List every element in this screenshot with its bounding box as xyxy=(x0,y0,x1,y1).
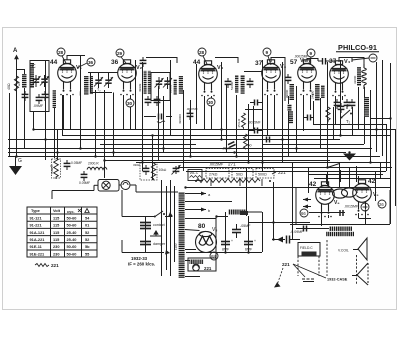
trimmer C3a xyxy=(155,77,164,89)
wire x62 xyxy=(62,95,64,135)
cathode bias resistor xyxy=(133,163,167,181)
tube V3 (44) xyxy=(199,61,218,97)
wire antenna drop xyxy=(16,59,18,156)
caps near V3 right xyxy=(225,78,232,88)
wire x135 xyxy=(135,60,137,129)
svg-text:G: G xyxy=(18,158,22,164)
wire x282 xyxy=(282,62,284,162)
cap on speaker line xyxy=(304,226,307,232)
svg-text:221: 221 xyxy=(51,263,59,268)
note 221 under table xyxy=(35,263,59,268)
wire x33 xyxy=(33,112,35,129)
wire x248 xyxy=(248,104,250,162)
svg-text:-05MF: -05MF xyxy=(240,224,251,228)
svg-text:115: 115 xyxy=(53,230,60,235)
svg-text:6MF: 6MF xyxy=(245,248,253,252)
IF2 coil bar a xyxy=(235,75,238,93)
svg-text:91-121: 91-121 xyxy=(30,215,43,220)
svg-text:80: 80 xyxy=(198,223,206,230)
wire 42a legs down xyxy=(322,215,329,226)
svg-text:271: 271 xyxy=(228,162,236,167)
trimmer C3b xyxy=(163,77,172,89)
wire x313 xyxy=(313,101,315,125)
wire x358 xyxy=(358,87,360,129)
speaker field coil box xyxy=(298,243,320,257)
svg-text:V₈: V₈ xyxy=(212,227,217,233)
svg-text:42: 42 xyxy=(368,178,376,185)
voltage divider resistor zigzag xyxy=(195,179,271,187)
wire bus y135 xyxy=(62,135,390,137)
svg-text:V₄: V₄ xyxy=(344,59,351,65)
trimmer C1a xyxy=(32,75,41,87)
plate top wires xyxy=(67,56,364,102)
resistor vertical mid-left xyxy=(50,158,61,179)
coil loops of output IF transformer xyxy=(362,64,367,89)
antenna coil L3 xyxy=(30,63,35,88)
circled 28 above V1 xyxy=(57,48,65,56)
speaker plug arrow 221 xyxy=(274,262,326,288)
coupling cap 161,116 xyxy=(157,114,165,123)
wire x376 xyxy=(376,62,378,152)
wire V3 legs down xyxy=(205,96,212,129)
svg-text:44: 44 xyxy=(193,59,201,66)
cap at 190,115 xyxy=(187,110,194,120)
svg-text:25-40: 25-40 xyxy=(67,237,77,242)
svg-text:25m.R: 25m.R xyxy=(237,118,241,128)
svg-text:FIELD.C: FIELD.C xyxy=(300,246,313,250)
wire bus y152 xyxy=(8,152,346,154)
output tube 42 a xyxy=(316,182,335,218)
wire x163 xyxy=(163,96,165,152)
wire x320 xyxy=(320,98,322,148)
caps bottom right quadrant xyxy=(334,99,341,109)
svg-text:V₆: V₆ xyxy=(334,200,340,206)
output transformer secondary bar xyxy=(326,232,354,236)
wire x226 xyxy=(226,84,228,152)
svg-text:T₂: T₂ xyxy=(346,119,351,124)
capacitor .09MF below C1 xyxy=(36,94,43,104)
wire x158 xyxy=(158,86,160,160)
svg-text:.0015MF: .0015MF xyxy=(209,163,224,167)
svg-text:max.R: max.R xyxy=(50,164,54,174)
svg-text:0.05MF: 0.05MF xyxy=(71,161,82,165)
trimmer C2b xyxy=(104,76,113,88)
wire x352 xyxy=(352,107,354,136)
wire left riser x9 xyxy=(9,93,11,156)
tone cap with arrow xyxy=(172,165,181,175)
cap detector a xyxy=(248,119,263,134)
wire V4 legs down xyxy=(268,95,275,135)
svg-text:26: 26 xyxy=(379,202,384,207)
svg-text:115: 115 xyxy=(53,223,60,228)
wire x288 xyxy=(288,96,290,156)
wire x183 xyxy=(183,90,185,171)
detector RC cluster xyxy=(237,113,248,149)
IF1 coil bar a xyxy=(144,71,147,95)
wire x45 xyxy=(45,60,47,160)
svg-text:-0.09MF: -0.09MF xyxy=(290,230,304,234)
AC input section wires xyxy=(122,190,173,255)
IF1 coil bar d xyxy=(179,76,183,94)
resistor bar below V4b b xyxy=(321,85,325,98)
resistor top right xyxy=(326,107,330,122)
cap near V4 right xyxy=(285,74,292,84)
resistor bar near V4a right2 xyxy=(288,104,292,111)
trimmer C1b xyxy=(40,75,49,87)
svg-text:V₄: V₄ xyxy=(300,58,307,64)
svg-text:91-221: 91-221 xyxy=(30,223,43,228)
resistor bar near V4a right xyxy=(290,84,295,100)
speaker input cap xyxy=(272,230,304,244)
antenna coil L2 xyxy=(22,74,27,88)
svg-text:cyc.: cyc. xyxy=(67,209,75,214)
circled 30 below 42a xyxy=(300,209,308,217)
svg-text:36: 36 xyxy=(111,59,119,66)
gang capacitor section C2 xyxy=(88,72,118,93)
svg-text:V₃: V₃ xyxy=(217,65,224,71)
svg-text:V₄: V₄ xyxy=(280,64,287,70)
svg-text:C: C xyxy=(32,64,36,70)
IF2 coil bar b xyxy=(241,75,245,94)
wire left riser x24 xyxy=(24,69,26,74)
wire x333 xyxy=(333,107,335,139)
svg-text:36: 36 xyxy=(88,60,94,65)
osc coil bar b xyxy=(90,76,93,95)
svg-text:Volt: Volt xyxy=(53,208,61,213)
svg-text:IF = 260 k/cs.: IF = 260 k/cs. xyxy=(128,262,155,267)
fuse box under rectifier xyxy=(188,258,216,271)
small ground right xyxy=(343,152,356,161)
capacitor .09MF mid xyxy=(81,171,88,181)
wire right edge x390 xyxy=(390,63,392,224)
svg-text:.09MF: .09MF xyxy=(33,104,44,108)
cap top right a xyxy=(304,115,314,121)
antenna A xyxy=(13,48,19,59)
circled 30 below V3 xyxy=(207,98,215,106)
svg-text:28: 28 xyxy=(58,50,64,55)
wire x327 xyxy=(327,62,329,167)
svg-text:42: 42 xyxy=(309,181,317,188)
wire bus y129 xyxy=(33,129,395,131)
svg-text:1932-33: 1932-33 xyxy=(131,256,148,261)
svg-text:.0015MF: .0015MF xyxy=(248,121,261,125)
svg-text:.09MF: .09MF xyxy=(222,147,231,151)
tiny vertical labels xyxy=(17,75,357,250)
svg-text:32000: 32000 xyxy=(353,75,357,84)
wire x386 xyxy=(386,124,388,171)
gang capacitor box C3 xyxy=(151,73,170,101)
push-pull coupling loops xyxy=(333,188,357,198)
svg-text:.00025MF: .00025MF xyxy=(294,55,308,59)
svg-text:10kΩ: 10kΩ xyxy=(159,168,167,172)
svg-text:91E-221: 91E-221 xyxy=(30,251,46,256)
svg-text:A: A xyxy=(13,48,18,54)
svg-text:PHILCO-91: PHILCO-91 xyxy=(338,43,377,52)
wire x113 xyxy=(113,93,115,157)
IF1 coil bar b xyxy=(148,71,151,95)
cap detector b xyxy=(248,137,270,148)
line filter arrow xyxy=(150,230,162,236)
wire bus y167 xyxy=(178,167,392,169)
wire x340 xyxy=(340,60,342,135)
text 1932-33 note xyxy=(128,256,155,267)
svg-text:V.COIL: V.COIL xyxy=(338,249,349,253)
wire x104 xyxy=(104,90,106,178)
wire bus y162 xyxy=(136,162,390,164)
wire right edge x395 xyxy=(395,129,397,206)
wire x382 xyxy=(382,60,384,156)
IF1 coil bar c xyxy=(174,79,177,95)
svg-text:29: 29 xyxy=(117,51,123,56)
wire x152 xyxy=(152,135,154,180)
circled minus right of 42b xyxy=(361,203,369,211)
speaker cone upper xyxy=(338,238,367,260)
resistor bar below V4b a xyxy=(315,84,320,101)
cap top right of V4b xyxy=(318,58,330,65)
wire x196 xyxy=(196,64,198,124)
wire x370 xyxy=(370,90,372,162)
svg-text:50-60: 50-60 xyxy=(67,244,77,249)
tube V4c (37) xyxy=(330,61,349,97)
speaker cone lower xyxy=(352,263,368,285)
svg-text:1932-CASE: 1932-CASE xyxy=(327,278,348,282)
svg-text:230: 230 xyxy=(53,251,60,256)
wire seg y116 xyxy=(144,116,156,118)
bar top right small xyxy=(289,111,293,124)
circled 9 above V4 xyxy=(263,48,271,56)
svg-text:damper: damper xyxy=(153,242,166,246)
svg-text:115: 115 xyxy=(53,215,60,220)
svg-text:91A-221: 91A-221 xyxy=(30,237,46,242)
svg-text:24000: 24000 xyxy=(311,90,315,99)
wire x262 xyxy=(262,60,264,171)
wire x190 xyxy=(190,100,192,156)
svg-text:.0015MF: .0015MF xyxy=(344,205,359,209)
svg-text:500Ω: 500Ω xyxy=(258,173,267,177)
output transformer primary bar xyxy=(329,227,352,231)
tube V4 (37) xyxy=(262,60,281,96)
ground G symbol xyxy=(9,156,22,175)
wire x142 xyxy=(142,62,144,171)
svg-text:50Ω: 50Ω xyxy=(236,173,243,177)
tube V1 (44) xyxy=(58,60,77,96)
svg-text:osc: osc xyxy=(78,91,82,96)
wire V4c legs down xyxy=(336,96,343,125)
PHILCO-91 title xyxy=(336,43,379,52)
svg-text:5b: 5b xyxy=(85,244,90,249)
AC switch xyxy=(155,211,163,217)
cap top right b xyxy=(338,103,345,113)
output tube 42 b xyxy=(353,180,372,216)
bar left mid x53 xyxy=(53,90,56,108)
output IF coil bar xyxy=(357,67,361,86)
svg-text:ant: ant xyxy=(17,82,21,86)
svg-text:221: 221 xyxy=(204,266,212,271)
svg-text:10000: 10000 xyxy=(169,84,173,93)
svg-text:.0007MF: .0007MF xyxy=(186,107,198,111)
wire x57 xyxy=(57,129,59,160)
dashed speaker cable xyxy=(298,240,357,285)
svg-text:+: + xyxy=(254,239,256,243)
svg-text:51000: 51000 xyxy=(230,81,234,90)
wire bus y171 xyxy=(186,171,386,173)
svg-text:50-60: 50-60 xyxy=(67,215,77,220)
svg-text:30: 30 xyxy=(127,101,133,106)
wire bus y144 xyxy=(100,144,196,146)
wire ground bus y156 xyxy=(8,156,380,158)
svg-text:2000.R: 2000.R xyxy=(88,162,99,166)
wire x221 xyxy=(221,62,223,139)
svg-text:50-60: 50-60 xyxy=(67,223,77,228)
trimmer C2a xyxy=(94,76,103,88)
svg-text:44: 44 xyxy=(50,59,58,66)
line filter cap 1 xyxy=(140,223,165,229)
svg-text:110V: 110V xyxy=(174,243,178,250)
dots detector xyxy=(220,138,235,153)
right side routing runs xyxy=(308,166,390,184)
svg-text:30: 30 xyxy=(208,100,214,105)
svg-text:28: 28 xyxy=(199,50,205,55)
svg-text:V₅: V₅ xyxy=(373,192,379,198)
power transformer secondary winding xyxy=(179,192,185,278)
svg-text:490000: 490000 xyxy=(178,114,182,124)
wire x170 xyxy=(170,60,172,135)
gang capacitor box C1 xyxy=(30,61,49,112)
caps row y100 left xyxy=(145,96,152,106)
svg-text:66: 66 xyxy=(301,211,306,216)
svg-text:40Ω: 40Ω xyxy=(7,83,11,90)
tilted cap .09MF xyxy=(228,142,236,148)
svg-text:9: 9 xyxy=(266,50,269,55)
svg-text:50: 50 xyxy=(248,144,252,148)
svg-text:115: 115 xyxy=(53,237,60,242)
caps row under V1 xyxy=(22,91,29,101)
svg-text:Type: Type xyxy=(31,208,41,213)
interstage wiring verticals xyxy=(240,162,311,240)
wire V4b legs down xyxy=(304,95,311,131)
output stage wiring xyxy=(290,163,390,229)
circled 29 above V2 xyxy=(116,49,124,57)
rectifier tube 80 V8 xyxy=(196,223,218,253)
wire V2 legs down xyxy=(124,95,131,129)
svg-text:221: 221 xyxy=(278,170,286,175)
filter cap 8MF a xyxy=(232,224,251,238)
circled 30 below V2 xyxy=(126,99,134,107)
wire x246 psu left xyxy=(246,168,248,216)
wire x253 xyxy=(253,106,255,130)
cathode bias cap xyxy=(143,165,150,175)
horizontal coil mid xyxy=(87,162,107,170)
svg-text:25-40: 25-40 xyxy=(67,230,77,235)
filter cap 8MF b xyxy=(221,239,233,252)
svg-text:+: + xyxy=(231,239,233,243)
svg-text:221: 221 xyxy=(282,262,290,267)
circled 26 right xyxy=(378,200,386,208)
volume control box xyxy=(188,170,202,181)
wire x95 xyxy=(95,90,97,156)
antenna series resistor xyxy=(15,70,25,92)
tone switch T xyxy=(341,110,353,124)
svg-text:91A-121: 91A-121 xyxy=(30,230,46,235)
svg-text:9: 9 xyxy=(310,51,313,56)
tube V4b (57) xyxy=(298,60,317,96)
wire x80 xyxy=(81,56,86,149)
circled 68 below rectifier xyxy=(210,252,218,260)
svg-text:27kΩ: 27kΩ xyxy=(209,173,218,177)
svg-text:0.09MF: 0.09MF xyxy=(79,181,90,185)
voltage divider dotted boxes xyxy=(206,162,286,179)
svg-text:57: 57 xyxy=(290,59,298,66)
circled 9b above V4b xyxy=(307,49,315,57)
wire x54 xyxy=(54,108,56,158)
svg-text:V₂: V₂ xyxy=(136,65,143,71)
power transformer primary verticals xyxy=(162,180,175,276)
transformer taps xyxy=(185,188,390,277)
line filter cap 2 xyxy=(140,242,166,247)
svg-text:91E-11: 91E-11 xyxy=(30,244,43,249)
wire bus y160 xyxy=(104,160,330,162)
svg-text:37: 37 xyxy=(255,60,263,67)
wire seg y124 xyxy=(313,124,386,126)
svg-text:50-60: 50-60 xyxy=(67,251,77,256)
cap at V2 top right xyxy=(140,57,147,67)
filter cap 6MF c xyxy=(244,239,256,252)
svg-text:VoL.C: VoL.C xyxy=(190,171,199,175)
svg-text:49999: 49999 xyxy=(138,83,142,92)
svg-text:T₂: T₂ xyxy=(97,88,101,92)
svg-text:contact: contact xyxy=(153,223,165,227)
wire x296 xyxy=(296,86,298,152)
wire 42b legs down xyxy=(359,213,366,224)
circled 28 above V3 xyxy=(198,48,206,56)
filter wiring xyxy=(186,212,263,259)
svg-text:230: 230 xyxy=(53,244,60,249)
wire x236 xyxy=(236,95,238,156)
osc coil bar a xyxy=(84,76,89,95)
wire bus y148 xyxy=(8,148,372,150)
svg-text:8MF: 8MF xyxy=(222,248,230,252)
coupling cap 42 xyxy=(340,205,359,217)
capacitor .05MF mid-left xyxy=(64,160,71,170)
wire bus y139 xyxy=(8,139,340,141)
circled minus right of V4c xyxy=(369,54,377,62)
IF output secondary bar xyxy=(365,97,370,117)
svg-text:330Ω: 330Ω xyxy=(133,163,141,167)
circled 36 right of V1 xyxy=(87,58,95,66)
tube V2 (36) xyxy=(118,60,137,96)
wire V1 legs down xyxy=(64,95,71,129)
dial lamp assembly xyxy=(52,180,178,200)
filter choke xyxy=(228,210,247,215)
wire x364 xyxy=(364,87,366,144)
svg-text:99000: 99000 xyxy=(285,89,289,98)
tube type table xyxy=(27,207,97,257)
